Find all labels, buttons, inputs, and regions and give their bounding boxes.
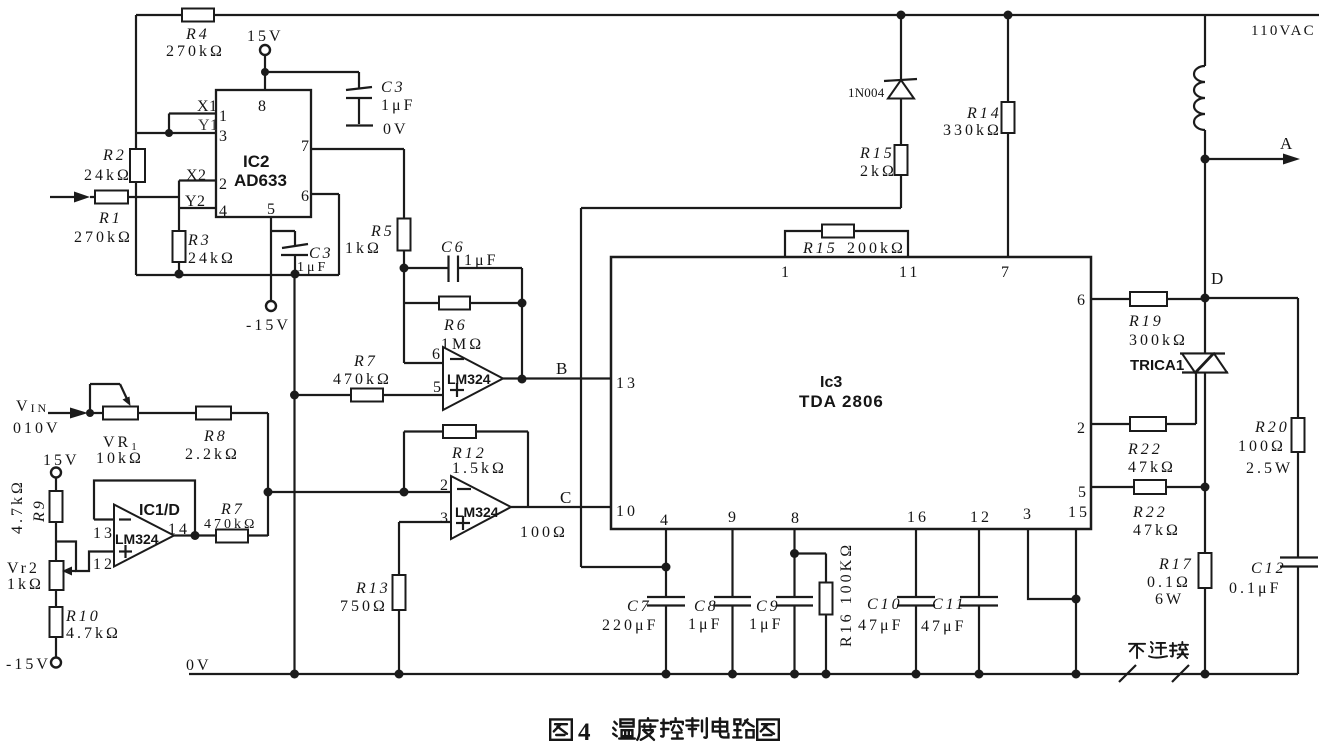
svg-text:2: 2	[219, 176, 230, 193]
wire pin12	[56, 542, 114, 572]
resistor R6	[404, 302, 522, 304]
svg-text:6: 6	[1077, 292, 1088, 309]
node IC1D output	[191, 531, 200, 540]
capacitor C12	[1280, 556, 1318, 558]
wire pin13	[94, 518, 114, 520]
capacitor C6	[404, 267, 448, 269]
wire Vin row	[88, 412, 268, 414]
resistor R17	[1204, 487, 1206, 674]
svg-text:B: B	[556, 359, 570, 378]
svg-text:2.5W: 2.5W	[1246, 460, 1293, 477]
svg-text:15V: 15V	[247, 28, 284, 45]
svg-text:R6: R6	[443, 317, 468, 334]
caption 温	[613, 719, 635, 738]
svg-text:Y1: Y1	[198, 117, 219, 134]
svg-text:TRICA1: TRICA1	[1130, 357, 1184, 374]
svg-text:9: 9	[728, 509, 739, 526]
node top rail R14 branch	[1004, 11, 1013, 20]
svg-text:C8: C8	[694, 598, 719, 615]
op-amp IC1/D LM324	[114, 505, 174, 567]
svg-text:4.7kΩ: 4.7kΩ	[9, 479, 26, 534]
svg-text:100Ω: 100Ω	[1238, 438, 1286, 455]
resistor R8	[196, 407, 231, 420]
svg-text:24kΩ: 24kΩ	[188, 250, 236, 267]
svg-text:R4: R4	[185, 26, 210, 43]
svg-text:R15: R15	[859, 145, 895, 162]
svg-text:R20: R20	[1254, 419, 1290, 436]
svg-text:1kΩ: 1kΩ	[7, 576, 44, 593]
input arrow left	[50, 196, 75, 198]
svg-text:R1: R1	[98, 210, 123, 227]
wire pin5 down	[270, 217, 272, 275]
svg-text:1.5kΩ: 1.5kΩ	[452, 460, 507, 477]
svg-text:IC2: IC2	[243, 152, 269, 171]
node 15V junction	[261, 68, 269, 76]
svg-text:R22: R22	[1132, 504, 1168, 521]
wire left feedback rail	[135, 15, 137, 275]
node rail R13	[395, 670, 404, 679]
svg-text:4: 4	[660, 512, 671, 529]
capacitor C11	[978, 529, 980, 597]
svg-text:8: 8	[258, 98, 269, 115]
wire C6 right down to output	[521, 268, 523, 379]
node R3 bottom	[175, 270, 184, 279]
node D	[1201, 294, 1210, 303]
svg-text:5: 5	[1078, 484, 1089, 501]
capacitor C5 on pin5	[271, 230, 295, 232]
svg-text:VIN: VIN	[16, 398, 49, 415]
wire 15V to IC2 pin 8	[264, 55, 266, 90]
node X1Y1	[165, 129, 173, 137]
node rail triac column	[1201, 670, 1210, 679]
svg-text:10kΩ: 10kΩ	[96, 450, 144, 467]
wire X2-Y2 link	[178, 181, 180, 232]
resistor R22a	[1091, 423, 1196, 425]
svg-text:C11: C11	[932, 596, 966, 613]
svg-text:11: 11	[899, 264, 920, 281]
op-amp U1A LM324	[443, 347, 503, 410]
wire pin1 X1	[169, 112, 216, 114]
svg-text:3: 3	[1023, 506, 1034, 523]
node R7 left	[290, 391, 299, 400]
svg-text:1μF: 1μF	[749, 616, 783, 633]
resistor R10	[50, 607, 63, 637]
resistor R14	[1007, 15, 1009, 257]
svg-text:R9: R9	[31, 498, 48, 523]
node rail x294	[290, 670, 299, 679]
resistor R19	[1091, 298, 1205, 300]
capacitor C7	[665, 529, 667, 597]
svg-text:3: 3	[440, 510, 451, 527]
node R5 bottom	[400, 264, 409, 273]
caption 图	[757, 719, 779, 739]
capacitor C9	[793, 529, 795, 597]
capacitor C8	[731, 529, 733, 597]
wire IC2 bottom rail	[136, 274, 339, 276]
node top rail diode branch	[897, 11, 906, 20]
terminal -15V	[270, 275, 272, 301]
capacitor C3	[358, 72, 360, 88]
svg-text:1μF: 1μF	[297, 260, 328, 275]
svg-text:R22: R22	[1127, 441, 1163, 458]
svg-text:-15V: -15V	[6, 656, 51, 673]
label not-connected 不	[1129, 644, 1145, 658]
wiper arrow Vr2	[70, 570, 76, 572]
svg-text:0.1μF: 0.1μF	[1229, 580, 1281, 597]
wire op2 pin2	[268, 491, 451, 493]
svg-text:2.2kΩ: 2.2kΩ	[185, 446, 240, 463]
break marks not-connected	[1119, 665, 1136, 682]
wire pin3 to pin15	[1028, 529, 1076, 599]
resistor R15 200k bridge pins 1-11	[785, 231, 908, 257]
wire R15b to pin4 net	[900, 175, 902, 208]
svg-text:200kΩ: 200kΩ	[847, 240, 906, 257]
svg-text:0V: 0V	[383, 121, 409, 138]
wire R12 left down	[403, 432, 405, 493]
svg-text:C3: C3	[381, 79, 406, 96]
svg-text:47kΩ: 47kΩ	[1128, 459, 1176, 476]
inductor coil	[1204, 15, 1206, 66]
wire A to D	[1204, 159, 1206, 354]
caption 电	[713, 718, 729, 737]
svg-text:0.1Ω: 0.1Ω	[1147, 574, 1191, 591]
resistor R1	[90, 196, 179, 198]
resistor R4	[182, 9, 214, 22]
svg-text:R15: R15	[802, 240, 838, 257]
svg-text:C7: C7	[627, 598, 652, 615]
svg-text:13: 13	[616, 375, 638, 392]
svg-text:-15V: -15V	[246, 317, 291, 334]
svg-text:10: 10	[616, 503, 638, 520]
svg-text:12: 12	[93, 556, 115, 573]
svg-text:C: C	[560, 488, 574, 507]
svg-text:4.7kΩ: 4.7kΩ	[66, 625, 121, 642]
svg-text:47kΩ: 47kΩ	[1133, 522, 1181, 539]
svg-text:2: 2	[440, 477, 451, 494]
svg-text:16: 16	[907, 509, 929, 526]
resistor R7b	[174, 534, 268, 536]
wire pin2 X2	[179, 179, 216, 181]
wire 15V to C3	[265, 71, 359, 73]
svg-text:300kΩ: 300kΩ	[1129, 332, 1188, 349]
svg-text:R19: R19	[1128, 313, 1164, 330]
svg-text:5: 5	[433, 379, 444, 396]
wire pin4 Y2	[179, 207, 216, 209]
svg-text:0V: 0V	[186, 657, 212, 674]
svg-text:LM324: LM324	[455, 504, 499, 520]
svg-text:D: D	[1211, 269, 1226, 288]
wire pin6 down	[311, 193, 339, 195]
svg-text:A: A	[1280, 134, 1295, 153]
label not-connected 连	[1149, 642, 1167, 658]
svg-text:6W: 6W	[1155, 591, 1184, 608]
input arrow Vin	[48, 412, 71, 414]
wire node C to IC3 pin10	[511, 506, 611, 508]
svg-text:7: 7	[1001, 264, 1012, 281]
svg-text:3: 3	[219, 128, 230, 145]
svg-text:R17: R17	[1158, 556, 1194, 573]
resistor R15b 2k	[900, 99, 902, 146]
node R12-pin2	[400, 488, 409, 497]
wire X1-Y1 link	[168, 114, 170, 134]
node pin8 branch	[790, 549, 799, 558]
svg-text:TDA 2806: TDA 2806	[799, 392, 884, 411]
svg-text:13: 13	[93, 525, 115, 542]
svg-text:4: 4	[578, 719, 594, 745]
caption 度	[637, 718, 657, 740]
svg-text:5: 5	[267, 201, 278, 218]
svg-text:IC1/D: IC1/D	[139, 502, 180, 519]
svg-text:470kΩ: 470kΩ	[333, 371, 392, 388]
svg-text:C9: C9	[756, 598, 781, 615]
potentiometer Vr2	[50, 561, 64, 590]
potentiometer VR1	[103, 407, 138, 420]
resistor R16	[795, 552, 827, 554]
wire IC1D feedback	[94, 481, 195, 536]
terminal -15V left	[51, 658, 61, 668]
node pin4 net	[662, 563, 671, 572]
svg-text:Ic3: Ic3	[820, 374, 842, 391]
svg-text:R16 100KΩ: R16 100KΩ	[838, 542, 855, 647]
wire pin3 Y1	[136, 132, 216, 134]
svg-text:1: 1	[781, 264, 792, 281]
svg-text:110VAC: 110VAC	[1251, 23, 1316, 39]
op-amp U1B LM324	[451, 476, 511, 539]
node A	[1201, 155, 1210, 164]
svg-text:1μF: 1μF	[381, 97, 415, 114]
svg-text:C10: C10	[867, 596, 903, 613]
svg-text:C6: C6	[441, 239, 466, 256]
svg-text:R3: R3	[187, 232, 212, 249]
svg-text:X1: X1	[197, 98, 218, 115]
svg-text:2: 2	[1077, 420, 1088, 437]
node C5 bottom	[291, 270, 300, 279]
svg-text:47μF: 47μF	[858, 617, 903, 634]
svg-text:R14: R14	[966, 105, 1002, 122]
svg-text:330kΩ: 330kΩ	[943, 122, 1002, 139]
svg-text:1: 1	[219, 108, 230, 125]
label not-connected 接	[1170, 642, 1188, 658]
svg-text:12: 12	[970, 509, 992, 526]
node pin2 row left	[264, 488, 273, 497]
wire op2 pin3	[399, 521, 451, 523]
svg-text:470kΩ: 470kΩ	[204, 517, 257, 532]
svg-text:R7: R7	[220, 501, 245, 518]
resistor R9	[50, 491, 63, 522]
svg-text:Y2: Y2	[185, 193, 206, 210]
wire node B to IC3 pin13	[503, 377, 611, 379]
wire triac gate	[1195, 373, 1197, 425]
wire R8 down to pin2 row	[267, 413, 269, 536]
svg-text:1μF: 1μF	[688, 616, 722, 633]
wire pin15 down	[1075, 529, 1077, 674]
node op1 output	[518, 375, 527, 384]
resistor R7	[295, 394, 444, 396]
svg-text:47μF: 47μF	[921, 618, 966, 635]
arrow A	[1205, 158, 1284, 160]
wire triac main down	[1204, 373, 1206, 488]
svg-text:AD633: AD633	[234, 171, 287, 190]
svg-text:R13: R13	[355, 580, 391, 597]
svg-text:15: 15	[1068, 504, 1090, 521]
svg-text:R5: R5	[370, 223, 395, 240]
caption 制	[686, 718, 706, 738]
wire 0V bottom rail	[189, 673, 1298, 675]
svg-text:1kΩ: 1kΩ	[345, 240, 382, 257]
svg-text:6: 6	[432, 346, 443, 363]
svg-text:R8: R8	[203, 428, 228, 445]
svg-text:6: 6	[301, 188, 312, 205]
resistor R5	[403, 149, 405, 268]
wire top supply rail 110VAC	[136, 14, 1319, 16]
svg-text:LM324: LM324	[447, 371, 491, 387]
svg-text:15V: 15V	[43, 452, 80, 469]
node R22b right	[1201, 483, 1210, 492]
svg-text:R10: R10	[65, 608, 101, 625]
svg-text:24kΩ: 24kΩ	[84, 167, 132, 184]
resistor R20	[1297, 298, 1299, 557]
caption 路	[733, 719, 753, 737]
caption 控	[661, 718, 683, 738]
svg-text:220μF: 220μF	[602, 617, 658, 634]
svg-text:2kΩ: 2kΩ	[860, 163, 897, 180]
resistor R12	[404, 430, 528, 432]
svg-text:7: 7	[301, 138, 312, 155]
wire R9 column	[55, 478, 57, 658]
terminal +15V	[260, 45, 270, 55]
diode 1N004	[900, 15, 902, 80]
wire D to R20	[1205, 297, 1298, 299]
wire R5 node down to pin6	[403, 268, 405, 363]
svg-text:X2: X2	[186, 167, 207, 184]
resistor R3	[178, 231, 180, 275]
svg-text:270kΩ: 270kΩ	[166, 43, 225, 60]
svg-text:750Ω: 750Ω	[340, 598, 388, 615]
resistor R13	[398, 522, 400, 674]
svg-text:8: 8	[791, 510, 802, 527]
capacitor C10	[915, 529, 917, 597]
svg-text:LM324: LM324	[115, 531, 159, 547]
triac TRICA1	[1180, 352, 1225, 354]
svg-text:C12: C12	[1251, 560, 1287, 577]
svg-text:R7: R7	[353, 353, 378, 370]
resistor R22b	[1091, 486, 1205, 488]
svg-text:010V: 010V	[13, 420, 61, 437]
svg-text:100Ω: 100Ω	[520, 524, 568, 541]
wire long vertical from C5 node	[293, 274, 295, 674]
svg-text:1μF: 1μF	[464, 252, 498, 269]
svg-text:1N004: 1N004	[848, 85, 885, 100]
caption 图	[550, 719, 572, 739]
svg-text:270kΩ: 270kΩ	[74, 229, 133, 246]
svg-text:Vr2: Vr2	[7, 560, 40, 577]
svg-text:4: 4	[219, 203, 230, 220]
op-amp U-IC2 AD633 body	[216, 90, 311, 217]
resistor R2	[130, 149, 145, 182]
node R6 right	[518, 299, 527, 308]
wire R12 right down	[527, 432, 529, 508]
wire pin7 out	[311, 148, 404, 150]
IC U-IC3 TDA2806 body	[611, 257, 1091, 529]
svg-text:R2: R2	[102, 147, 127, 164]
